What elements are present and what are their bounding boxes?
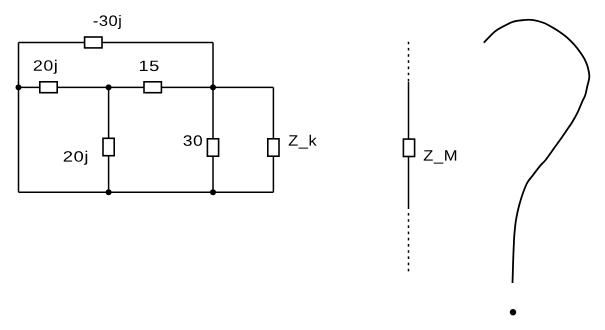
impedance 20j series xyxy=(40,82,57,93)
resistor 15 xyxy=(144,82,161,93)
resistor 30 xyxy=(207,139,218,156)
label -30j xyxy=(94,15,121,29)
wire middle horizontal xyxy=(19,86,274,88)
label Z_M xyxy=(424,150,457,163)
impedance Z_k xyxy=(268,139,279,156)
node C (right, middle wire) xyxy=(210,84,216,90)
wire middle branch vertical xyxy=(108,87,110,192)
node A (left, middle wire) xyxy=(16,84,22,90)
question mark curve xyxy=(484,20,590,283)
wire Z_k branch vertical xyxy=(272,87,274,192)
wire left vertical xyxy=(18,43,20,193)
node B (middle branch top) xyxy=(106,84,112,90)
wire Z_M solid xyxy=(408,82,410,209)
node E (30-branch bottom) xyxy=(210,189,216,195)
label 30 xyxy=(184,135,203,146)
impedance Z_M xyxy=(403,139,414,156)
question mark dot xyxy=(510,309,516,315)
label 20j series xyxy=(34,60,57,74)
label 20j shunt xyxy=(64,151,87,165)
node D (middle branch bottom) xyxy=(106,189,112,195)
label Z_k xyxy=(289,135,317,149)
impedance 20j shunt xyxy=(103,138,114,155)
wire Z_M dashed lower xyxy=(408,213,410,272)
impedance -30j xyxy=(85,37,102,48)
label 15 xyxy=(140,61,159,71)
wire bottom horizontal xyxy=(19,191,274,193)
wire Z_M dashed upper xyxy=(408,42,410,82)
wire 30-branch vertical xyxy=(212,87,214,192)
wire right vertical upper xyxy=(212,43,214,88)
wire top horizontal xyxy=(19,42,214,44)
